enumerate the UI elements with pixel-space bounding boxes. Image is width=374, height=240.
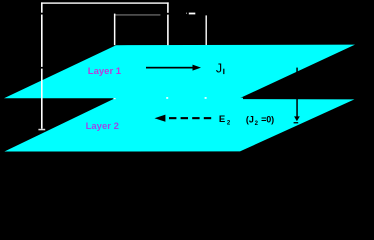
arrow E2 head [155,115,166,122]
svg-text:Layer 1: Layer 1 [88,66,122,77]
wire: left vertical segment 2 [41,15,43,67]
down arrow shaft [296,68,298,117]
wire: inner left vertical [114,14,116,46]
wire: outer right vertical segment 2 [167,15,169,46]
white speck at layer junction [113,98,115,99]
wire: bright dash [189,13,196,15]
svg-text:=0): =0) [261,115,274,125]
white speck: hidden contact 1 [166,97,168,99]
wire: inner right vertical [206,15,207,45]
cyan bridge between layers [114,98,243,100]
contact foot on layer 2 [38,129,45,131]
svg-text:(J: (J [246,115,254,125]
white speck: hidden contact 2 [205,97,207,99]
layer 1 (top cyan sheet) [4,45,355,99]
wire: outer right vertical segment 1 [167,2,169,12]
svg-text:Layer 2: Layer 2 [86,121,119,132]
wire: left vertical segment 1 [41,2,43,12]
arrow J1 shaft [146,67,194,69]
wire: small tick [185,13,188,14]
svg-text:J: J [216,61,222,75]
svg-text:E: E [219,114,225,125]
arrow J1 head [193,65,202,71]
arrow E2 dash 4 [204,117,211,119]
wire: inner bus (dim) [115,14,161,17]
wire: left vertical segment 3 [41,69,43,129]
wire: top bus [41,2,169,3]
layer 2 (bottom cyan sheet) [4,99,354,152]
arrow E2 dash 2 [181,117,188,119]
arrow E2 dash 3 [192,117,199,119]
down arrow base tick [294,122,299,123]
down arrow head [294,116,300,121]
arrow E2 dash 1 [169,117,176,119]
